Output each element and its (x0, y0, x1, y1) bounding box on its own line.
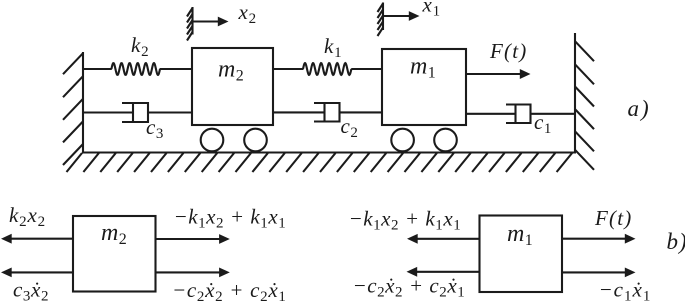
arrow k2x2 (FBD m2 upper left) (1, 234, 73, 244)
arrow -k1x2+k1x1 (FBD m1 upper left) (407, 234, 480, 244)
svg-text:b): b) (667, 229, 685, 254)
svg-text:F(t): F(t) (489, 39, 527, 63)
svg-text:−c2ẋ2 + c2ẋ1: −c2ẋ2 + c2ẋ1 (353, 274, 466, 301)
datum symbol for x1 (378, 3, 420, 37)
arrow -c2x2dot+c2x1dot (FBD m1 lower left) (407, 267, 480, 277)
arrow -c1x1dot (FBD m1 lower right) (562, 268, 636, 278)
left wall (63, 52, 83, 165)
wire spring k2 to mass m2 (160, 68, 192, 70)
svg-text:c3: c3 (146, 115, 164, 142)
right wall (575, 33, 594, 170)
force F(t) arrow (466, 69, 531, 79)
svg-text:k2x2: k2x2 (9, 203, 46, 230)
arrow -k1x2+k1x1 (FBD m2 upper right) (156, 234, 230, 244)
FBD mass m2 (73, 216, 156, 292)
svg-text:a): a) (628, 96, 651, 121)
svg-text:F(t): F(t) (594, 206, 632, 230)
damper c1 (506, 105, 531, 124)
wire spring k1 to mass m1 (351, 68, 382, 70)
svg-text:k2: k2 (131, 33, 149, 60)
svg-text:m1: m1 (507, 221, 533, 249)
FBD mass m1 (480, 216, 563, 293)
svg-text:x2: x2 (238, 0, 257, 27)
wheels of m1 (391, 129, 457, 152)
wire m2 to damper c2 (273, 111, 325, 113)
svg-text:m1: m1 (410, 54, 436, 82)
wire damper c1 to wall (531, 113, 576, 115)
svg-text:−k1x2 + k1x1: −k1x2 + k1x1 (174, 205, 287, 232)
svg-text:c3ẋ2: c3ẋ2 (13, 278, 49, 304)
wire wall to spring k2 (83, 68, 112, 70)
datum symbol for x2 (187, 7, 229, 41)
wheels of m2 (201, 129, 267, 152)
spring k1 (303, 63, 351, 75)
spring k2 (111, 63, 160, 75)
svg-text:c2: c2 (341, 114, 359, 141)
arrow F(t) (FBD m1 upper right) (562, 234, 636, 244)
wire damper c2 to mass m1 (340, 111, 383, 113)
svg-text:m2: m2 (218, 57, 244, 85)
wire m2 to spring k1 (273, 68, 303, 70)
svg-text:−c2ẋ2 + c2ẋ1: −c2ẋ2 + c2ẋ1 (172, 278, 287, 304)
mass m1 (382, 49, 466, 125)
arrow -c2x2dot+c2x1dot (FBD m2 lower right) (156, 268, 230, 278)
wire damper c3 to mass m2 (148, 111, 192, 113)
wire wall to damper c3 (83, 111, 133, 113)
ground (67, 153, 577, 173)
wire m1 to damper c1 (466, 113, 516, 115)
svg-text:k1: k1 (324, 34, 342, 61)
damper c2 (314, 103, 340, 122)
svg-text:m2: m2 (101, 220, 127, 248)
svg-text:−c1ẋ1: −c1ẋ1 (599, 278, 652, 304)
svg-text:x1: x1 (422, 0, 441, 20)
damper c3 (122, 103, 148, 122)
svg-text:−k1x2 + k1x1: −k1x2 + k1x1 (349, 207, 462, 234)
mass m2 (192, 48, 273, 125)
arrow c3x2dot (FBD m2 lower left) (1, 268, 73, 278)
